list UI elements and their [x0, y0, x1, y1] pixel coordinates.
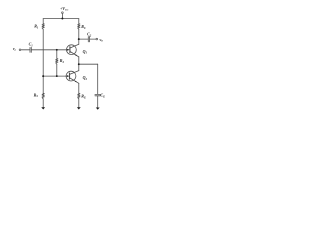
wire C1 to Q1 base (node B1) — [32, 49, 68, 51]
junction dot node B1 (input to R2 top) — [56, 49, 58, 51]
svg-text:R3: R3 — [34, 92, 39, 98]
top supply rail wire — [43, 18, 79, 20]
capacitor C1 — [30, 47, 31, 52]
wire Q2 emitter to RE — [78, 83, 80, 93]
junction dot output node — [78, 38, 80, 40]
svg-text:R2: R2 — [60, 58, 65, 64]
wire node B2 to Q2 base — [43, 75, 67, 77]
svg-text:Q2: Q2 — [83, 75, 88, 81]
wire Vcc stub — [61, 14, 63, 19]
output terminal vo — [96, 38, 98, 40]
svg-text:C1: C1 — [29, 42, 34, 48]
resistor R3 — [42, 93, 44, 99]
resistor RC — [78, 24, 80, 30]
transistor Q2 base bar — [69, 73, 71, 79]
wire right branch upper lead — [78, 19, 80, 24]
junction dot bypass node — [78, 63, 80, 65]
ground symbol RE — [77, 107, 81, 109]
wire Q1 emitter to Q2 collector (through bypass node) — [78, 57, 80, 71]
wire middle branch lower lead — [56, 64, 58, 76]
wire left branch upper lead — [42, 19, 44, 24]
input terminal vi — [19, 49, 21, 51]
junction dot node B2 middle — [56, 75, 58, 77]
transistor Q1 emitter arrow — [75, 54, 77, 55]
resistor R1 — [42, 24, 44, 30]
svg-text:C2: C2 — [87, 32, 92, 38]
wire left vertical (node B2 to R3) — [42, 76, 44, 93]
svg-text:RC: RC — [81, 24, 86, 30]
wire left vertical (R1 bottom to node B2, crosses input wire without junction) — [42, 29, 44, 76]
svg-text:CE: CE — [100, 93, 105, 99]
ground symbol CE — [96, 108, 100, 110]
svg-text:vi: vi — [13, 46, 16, 52]
wire RE to ground — [78, 99, 80, 108]
supply terminal +VCC — [62, 12, 64, 14]
transistor Q1 base arrow — [67, 49, 69, 51]
svg-text:Q1: Q1 — [83, 49, 88, 55]
svg-text:R1: R1 — [34, 24, 39, 30]
transistor Q2 emitter lead — [70, 78, 79, 83]
junction dot Vcc rail — [61, 18, 63, 20]
transistor Q2 emitter arrow — [75, 81, 77, 82]
capacitor C2 — [88, 37, 89, 42]
wire C2 to output terminal — [90, 38, 96, 40]
wire input terminal to C1 — [21, 49, 30, 51]
transistor Q1 collector lead — [70, 44, 79, 48]
wire R3 to ground — [42, 99, 44, 108]
transistor Q1 base bar — [69, 47, 71, 53]
resistor RE — [78, 93, 80, 99]
wire CE to ground — [97, 96, 99, 107]
resistor R2 — [56, 59, 58, 65]
svg-text:+VCC: +VCC — [60, 6, 69, 12]
ground symbol left — [41, 107, 45, 109]
wire bypass node to CE branch corner — [79, 63, 98, 65]
wire middle branch upper lead — [56, 50, 58, 59]
wire output node to C2 — [79, 38, 88, 40]
wire CE branch vertical — [97, 64, 99, 94]
transistor Q1 emitter lead — [70, 52, 79, 57]
transistor Q2 circle — [66, 71, 76, 81]
junction dot node B2 left — [42, 75, 44, 77]
wire RC bottom to Q1 collector (through output node) — [78, 29, 80, 44]
capacitor CE — [95, 94, 101, 95]
svg-text:RE: RE — [81, 94, 86, 100]
svg-text:vo: vo — [100, 37, 104, 43]
transistor Q2 base arrow — [67, 75, 69, 77]
transistor Q2 collector lead — [70, 71, 79, 75]
transistor Q1 circle — [67, 45, 77, 55]
